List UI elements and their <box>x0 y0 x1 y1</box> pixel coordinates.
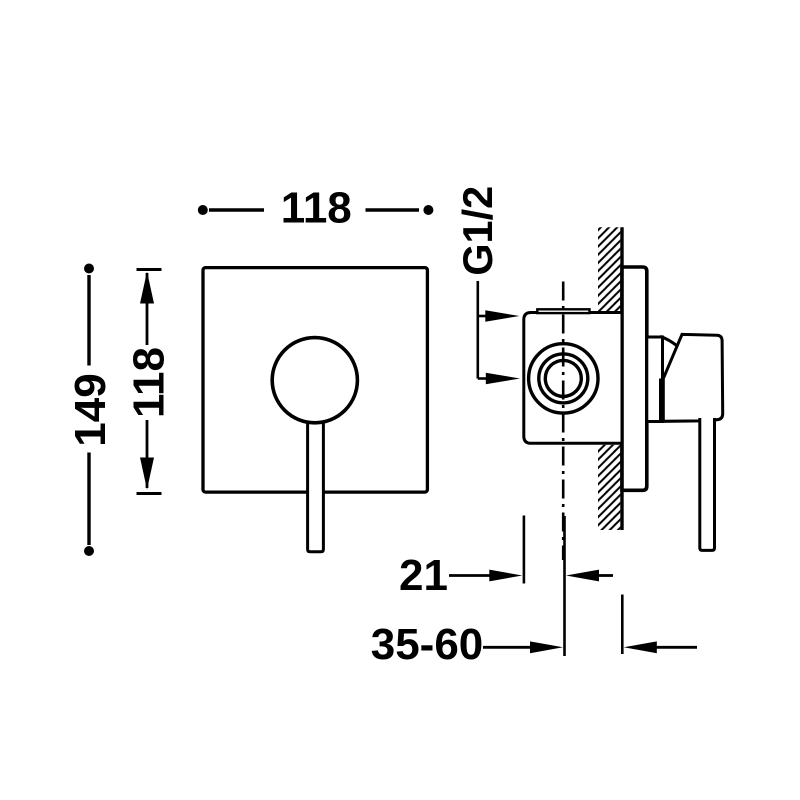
dimension 35-60: right arrow <box>624 641 657 653</box>
svg-text:35-60: 35-60 <box>371 620 484 669</box>
dimension 118 vertical: lower leader line <box>146 420 149 488</box>
dimension 149: upper line <box>87 275 90 366</box>
wall hatching below valve body <box>598 445 620 530</box>
dimension 118 vertical: upper leader line <box>146 273 149 345</box>
G1/2 callout line <box>476 281 479 379</box>
handle knob circle <box>272 338 357 423</box>
dimension 149: lower line <box>87 453 90 546</box>
dimension 118 vertical: arrowhead up <box>140 272 154 304</box>
handle lever bar (front view) <box>308 395 324 552</box>
outlet circle outer <box>529 344 598 413</box>
top dimension 118: left line <box>209 208 264 212</box>
top dimension 118: left dot <box>198 205 208 215</box>
outlet circle inner <box>545 360 581 396</box>
extension line at centerline <box>563 516 566 656</box>
handle body (side view) <box>663 334 722 421</box>
plate height dimension 118: top tick <box>137 268 162 271</box>
G1/2 callout arrow to top port <box>478 315 487 318</box>
svg-text:G1/2: G1/2 <box>454 186 501 276</box>
valve body (in-wall) <box>524 313 622 444</box>
svg-text:118: 118 <box>281 184 352 233</box>
top dimension 118: right dot <box>423 205 433 215</box>
flange plate behind wall <box>622 267 647 490</box>
wall face line <box>620 227 623 530</box>
vertical centerline (dash-dot) <box>562 282 565 561</box>
dimension 118 vertical: arrowhead down <box>140 458 154 490</box>
dimension 35-60: left arrow <box>483 646 531 649</box>
handle lever (side view) <box>700 418 715 550</box>
faceplate square <box>203 268 427 493</box>
overall height dimension 149: top dot <box>84 264 94 274</box>
svg-text:118: 118 <box>125 347 174 418</box>
G1/2 top port tab <box>537 309 589 313</box>
svg-text:149: 149 <box>66 373 115 446</box>
handle collar crease arc <box>660 336 677 346</box>
top dimension 118: right line <box>366 208 420 212</box>
dimension 149: bottom dot <box>84 546 94 556</box>
wall hatching above valve body <box>598 227 620 312</box>
dimension 21: left arrow <box>449 574 490 577</box>
G1/2 callout arrow to side outlet <box>478 377 487 380</box>
cartridge neck between plate and handle <box>647 337 663 422</box>
extension line at wall face <box>621 595 624 655</box>
dimension 21: right arrow <box>566 570 599 582</box>
extension line at valve front face <box>523 516 526 584</box>
dimension 118 vertical: bottom tick <box>137 492 162 495</box>
handle left edge (thick junction) <box>659 379 664 421</box>
outlet circle middle <box>539 354 588 403</box>
svg-text:21: 21 <box>399 551 448 600</box>
